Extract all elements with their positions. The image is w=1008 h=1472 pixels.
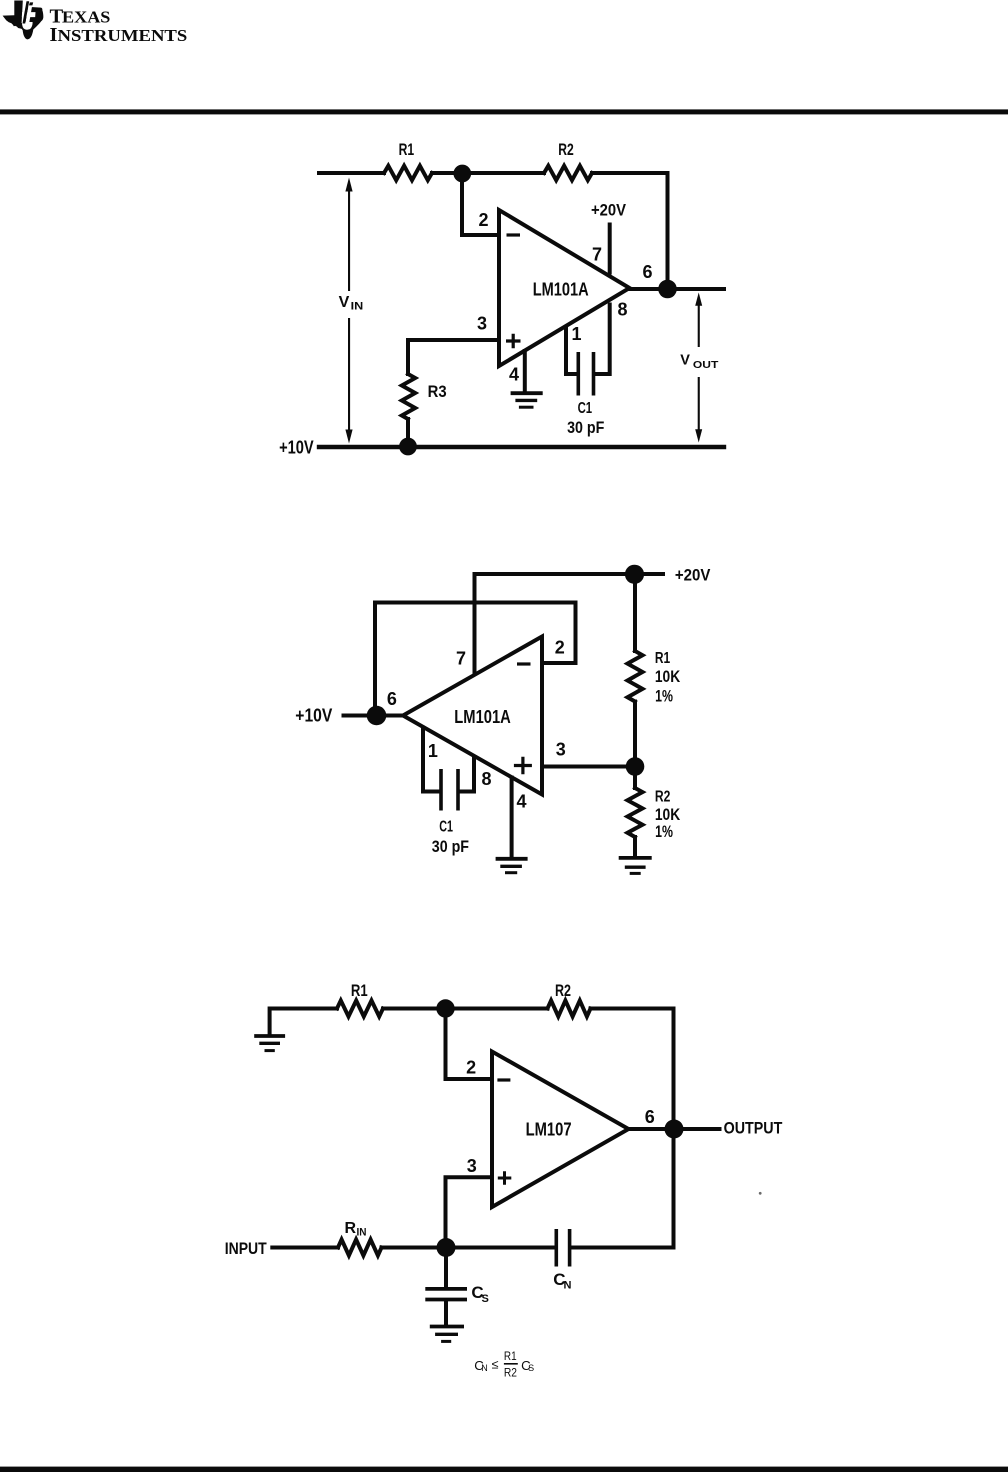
op-amp plus sign (498, 1171, 512, 1185)
svg-text:4: 4 (509, 364, 519, 384)
svg-text:R2: R2 (655, 789, 671, 806)
wire: +10V input to apex pin 6 (344, 714, 404, 718)
wire: R1 to R2 through node (383, 1007, 548, 1011)
svg-text:2: 2 (466, 1058, 476, 1078)
wire: +20V supply to pin 7 (608, 225, 612, 273)
wire: R2 to right feedback rail (591, 1009, 674, 1248)
top rule (0, 109, 1008, 114)
wire: C_S to ground (444, 1301, 448, 1325)
svg-text:R1: R1 (399, 140, 415, 159)
wire: R2 to ground (633, 837, 637, 856)
stray scan speck (759, 1192, 762, 1195)
node: output junction dot (665, 1120, 684, 1139)
resistor R2 (548, 1001, 591, 1017)
wire: pin 1 lead to C1 left plate (423, 728, 440, 792)
wire: INPUT through R_IN (272, 1246, 338, 1250)
svg-text:1: 1 (428, 741, 438, 761)
svg-text:2: 2 (479, 210, 489, 230)
svg-text:6: 6 (643, 262, 653, 282)
capacitor C_S bottom plate (425, 1298, 467, 1302)
node: divider midpoint junction dot (626, 757, 645, 776)
wire: pin 3 to divider node (542, 765, 635, 769)
svg-text:6: 6 (387, 689, 397, 709)
svg-text:+10V: +10V (279, 438, 314, 458)
op-amp minus sign (507, 233, 521, 236)
svg-text:V: V (339, 294, 350, 311)
node: summing junction dot (453, 165, 471, 183)
svg-text:+20V: +20V (675, 567, 711, 585)
svg-text:R1: R1 (504, 1351, 517, 1363)
svg-text:IN: IN (351, 301, 364, 313)
wire: ground stem to R1 (270, 1009, 337, 1035)
wire: R3 to +10V rail (406, 419, 410, 446)
svg-text:10K: 10K (655, 668, 680, 686)
wire: output from apex (630, 287, 725, 291)
svg-text:8: 8 (618, 299, 628, 319)
svg-text:LM107: LM107 (526, 1120, 572, 1140)
op-amp plus sign (506, 334, 521, 348)
wire: pin 3 to input node (446, 1177, 493, 1247)
svg-text:R: R (345, 1220, 357, 1237)
svg-text:1%: 1% (655, 688, 673, 706)
svg-text:R2: R2 (504, 1368, 517, 1380)
wire: feedback loop pin 6 to pin 2 (375, 603, 576, 664)
svg-text:7: 7 (456, 648, 466, 668)
node: +20V junction dot (625, 565, 644, 584)
node: pin 6 output junction dot (367, 706, 387, 726)
capacitor C_N left plate (554, 1229, 558, 1267)
wire: node down to C_S (444, 1248, 448, 1288)
wire: pin 8 lead to C1 right plate (596, 305, 610, 375)
svg-text:R1: R1 (655, 650, 670, 667)
svg-text:+20V: +20V (591, 202, 626, 220)
bottom rule (0, 1467, 1008, 1472)
svg-text:C1: C1 (439, 818, 453, 835)
svg-text:7: 7 (592, 245, 602, 265)
svg-text:EXAS: EXAS (62, 7, 110, 26)
ground symbol pin 4 (511, 391, 543, 395)
node: input junction dot (437, 1238, 456, 1257)
svg-text:N: N (481, 1363, 488, 1373)
svg-text:INPUT: INPUT (225, 1240, 267, 1258)
svg-text:R1: R1 (351, 981, 368, 1000)
node: output junction dot (658, 280, 677, 299)
svg-text:6: 6 (645, 1107, 655, 1127)
wire: pin 3 from non-inverting input to R3 (408, 340, 499, 374)
svg-text:S: S (528, 1363, 534, 1373)
wire: pin 2 from node to inverting input (446, 1009, 493, 1080)
wire: top rail left segment into R1 (319, 171, 384, 175)
svg-text:≤: ≤ (492, 1358, 499, 1372)
resistor R3 (402, 374, 415, 419)
capacitor C1 right plate (592, 352, 596, 396)
resistor R1 (337, 1001, 383, 1017)
V_IN measure arrow (345, 178, 352, 444)
ground symbol below C_S (430, 1325, 464, 1329)
svg-text:N: N (564, 1280, 572, 1292)
svg-text:V: V (680, 353, 690, 369)
op-amp minus sign (517, 662, 531, 665)
svg-text:LM101A: LM101A (454, 707, 511, 727)
formula C_N &#8804; (R1/R2)C_S (474, 1351, 534, 1379)
svg-text:3: 3 (477, 314, 487, 334)
capacitor C1 left plate (576, 352, 580, 396)
svg-text:R3: R3 (428, 382, 447, 401)
wire: R1 to R2 through summing node (432, 171, 544, 175)
svg-text:I: I (50, 24, 58, 46)
op-amp U2 triangle LM101A (403, 637, 542, 795)
wire: pin 1 lead to C1 left plate (566, 328, 577, 375)
capacitor C_S top plate (425, 1287, 467, 1291)
op-amp U1 triangle LM101A (499, 210, 630, 366)
resistor R_IN (338, 1240, 382, 1256)
wire: R2 to feedback corner, down to output node (592, 173, 668, 289)
op-amp plus sign (514, 757, 532, 775)
resistor R2 (544, 166, 592, 180)
TI logo Texas-state emblem (3, 0, 44, 39)
svg-text:4: 4 (517, 792, 527, 812)
svg-text:1%: 1% (655, 823, 673, 841)
resistor R2 10K (628, 788, 643, 837)
wire: pin 8 lead to C1 right plate (460, 758, 475, 792)
svg-text:IN: IN (357, 1227, 367, 1239)
ground symbol pin 4 (496, 857, 528, 861)
wire: left drop to output node (373, 603, 377, 716)
wire: R_IN to C_N left plate (382, 1246, 555, 1250)
wire: pin 4 ground stem (523, 351, 527, 392)
svg-text:3: 3 (556, 740, 566, 760)
svg-text:LM101A: LM101A (533, 279, 589, 299)
node: R3 bottom rail junction dot (399, 438, 417, 456)
wire: C_N right plate to feedback rail (571, 1246, 673, 1250)
V_OUT measure arrow (695, 293, 702, 443)
svg-text:30 pF: 30 pF (567, 418, 604, 437)
wire: pin 4 ground stem (510, 778, 514, 858)
op-amp U3 triangle LM107 (492, 1052, 629, 1208)
svg-text:8: 8 (482, 769, 492, 789)
wire: node to R2 (633, 767, 637, 789)
svg-text:S: S (482, 1293, 489, 1305)
wire: output from apex (629, 1127, 720, 1131)
ground symbol top-left (254, 1034, 285, 1038)
svg-text:2: 2 (555, 637, 565, 657)
svg-text:R2: R2 (558, 140, 574, 159)
wire: R1 to node (633, 702, 637, 767)
resistor R1 10K (628, 651, 643, 702)
svg-text:1: 1 (572, 324, 582, 344)
ground symbol below R2 (619, 856, 652, 860)
wire: +20V rail down to R1 (633, 574, 637, 651)
wire: pin 7 riser to +20V rail (473, 574, 477, 674)
svg-text:3: 3 (467, 1156, 477, 1176)
svg-text:OUT: OUT (693, 360, 718, 371)
resistor R1 (384, 166, 432, 180)
node: summing junction dot (436, 999, 454, 1017)
svg-text:C1: C1 (578, 400, 593, 417)
svg-text:10K: 10K (655, 806, 680, 824)
svg-text:OUTPUT: OUTPUT (724, 1119, 783, 1137)
capacitor C_N right plate (568, 1229, 572, 1267)
wire: +10V bottom rail (319, 445, 724, 449)
op-amp minus sign (497, 1078, 510, 1081)
svg-text:R2: R2 (555, 981, 571, 1000)
wire: +20V top rail (475, 572, 664, 576)
capacitor C1 right plate (456, 769, 460, 811)
wire: pin 2 from node to inverting input (462, 173, 499, 235)
svg-text:+10V: +10V (295, 706, 332, 726)
svg-text:NSTRUMENTS: NSTRUMENTS (58, 26, 188, 45)
svg-text:30 pF: 30 pF (432, 837, 469, 856)
capacitor C1 left plate (439, 769, 443, 811)
